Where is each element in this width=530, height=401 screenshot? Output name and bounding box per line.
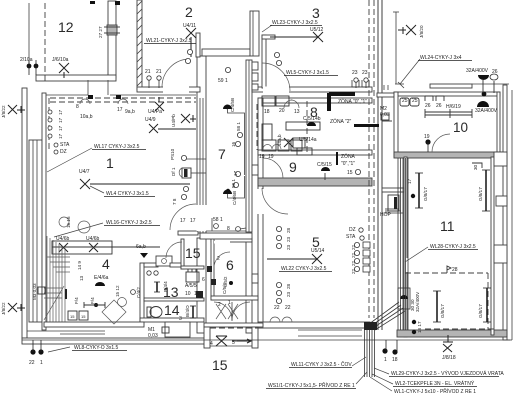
svg-text:21: 21	[145, 69, 151, 75]
svg-text:10: 10	[185, 291, 191, 297]
svg-text:G/8/17: G/8/17	[423, 187, 428, 201]
svg-text:E/4/6a: E/4/6a	[94, 275, 109, 281]
svg-text:7: 7	[218, 146, 226, 162]
svg-text:18 17: 18 17	[417, 321, 422, 333]
svg-text:6a,b: 6a,b	[136, 244, 146, 250]
svg-text:WL28-CYKY-J 3x2.5: WL28-CYKY-J 3x2.5	[430, 244, 476, 250]
svg-text:Df 1: Df 1	[171, 167, 176, 176]
svg-text:17: 17	[233, 170, 238, 176]
svg-text:10: 10	[194, 291, 200, 297]
svg-text:J/8/22: J/8/22	[1, 302, 6, 315]
svg-text:STA: STA	[346, 234, 356, 240]
svg-text:17: 17	[58, 133, 63, 139]
svg-text:C/4/5B: C/4/5B	[230, 98, 235, 112]
svg-text:U4/11: U4/11	[183, 23, 196, 29]
svg-text:C/5/15: C/5/15	[317, 162, 332, 168]
svg-text:28: 28	[286, 227, 291, 233]
svg-text:22: 22	[351, 268, 356, 274]
svg-text:J/6/10a: J/6/10a	[52, 57, 69, 63]
svg-text:22: 22	[285, 305, 291, 311]
svg-text:U5/12: U5/12	[310, 27, 324, 33]
svg-text:17: 17	[180, 218, 186, 224]
svg-text:15: 15	[185, 245, 201, 261]
svg-text:U4/Pa: U4/Pa	[148, 109, 162, 115]
svg-text:U4/9: U4/9	[145, 117, 156, 123]
svg-text:26: 26	[436, 103, 442, 109]
svg-text:16: 16	[231, 141, 236, 147]
svg-text:58 1: 58 1	[231, 179, 236, 188]
svg-text:22: 22	[29, 360, 35, 366]
svg-text:23: 23	[286, 236, 291, 242]
svg-text:5: 5	[232, 340, 235, 346]
svg-text:19: 19	[424, 134, 430, 140]
svg-text:15: 15	[81, 314, 86, 319]
svg-text:20: 20	[279, 108, 285, 114]
svg-text:"0","1": "0","1"	[341, 161, 355, 167]
svg-text:13: 13	[79, 275, 84, 281]
svg-text:25: 25	[412, 98, 418, 104]
svg-text:26: 26	[492, 69, 498, 75]
svg-text:G/8/17: G/8/17	[440, 304, 445, 318]
svg-text:27 27: 27 27	[98, 26, 103, 38]
svg-text:U4/6b: U4/6b	[86, 236, 100, 242]
svg-text:J/8/18: J/8/18	[442, 355, 456, 361]
svg-text:WL5-CYKY-J 3x1.5: WL5-CYKY-J 3x1.5	[286, 70, 329, 76]
svg-text:15: 15	[70, 314, 75, 319]
svg-text:U4/6b: U4/6b	[56, 236, 70, 242]
svg-text:M3 0,03: M3 0,03	[32, 283, 37, 300]
svg-text:12: 12	[58, 19, 74, 35]
svg-text:WL16-CYKY-J 3x2.5: WL16-CYKY-J 3x2.5	[106, 220, 152, 226]
svg-text:C/5/2: C/5/2	[222, 283, 227, 294]
svg-text:9: 9	[289, 159, 297, 175]
svg-text:1: 1	[106, 155, 114, 171]
svg-text:16 16: 16 16	[66, 216, 71, 228]
svg-text:2: 2	[217, 256, 220, 262]
svg-text:23: 23	[362, 70, 368, 76]
svg-text:C/4/2: C/4/2	[136, 287, 141, 298]
svg-text:58 1: 58 1	[213, 217, 223, 223]
svg-text:2: 2	[218, 302, 221, 308]
svg-text:WL29-CYKY-J 3x2.5 - VÝVOD VJEZ: WL29-CYKY-J 3x2.5 - VÝVOD VJEZDOVÁ VRATA	[391, 370, 504, 377]
svg-text:STA: STA	[60, 142, 70, 148]
svg-text:2/10a: 2/10a	[20, 57, 33, 63]
svg-text:A/5/5: A/5/5	[185, 283, 197, 289]
svg-text:H/6/19: H/6/19	[446, 104, 461, 110]
svg-text:14 9: 14 9	[77, 261, 82, 270]
svg-text:WL1-CYKY-J 5x10 - PŘÍVOD Z RE: WL1-CYKY-J 5x10 - PŘÍVOD Z RE 1	[394, 387, 476, 395]
svg-text:22: 22	[351, 252, 356, 258]
svg-text:17: 17	[190, 218, 196, 224]
svg-text:10a,b: 10a,b	[80, 114, 93, 120]
svg-text:3: 3	[179, 316, 182, 322]
svg-text:2: 2	[185, 4, 193, 20]
svg-text:17: 17	[58, 109, 63, 115]
svg-text:0,03: 0,03	[148, 333, 158, 339]
svg-text:1: 1	[40, 360, 43, 366]
svg-text:U4/Pb: U4/Pb	[171, 114, 176, 127]
svg-text:U4/7: U4/7	[79, 169, 90, 175]
svg-text:6: 6	[226, 257, 234, 273]
svg-text:32A/400V: 32A/400V	[466, 68, 489, 74]
svg-text:WL4 CYKY-J 3x1.5: WL4 CYKY-J 3x1.5	[106, 191, 149, 197]
svg-text:1: 1	[228, 300, 231, 306]
svg-text:6: 6	[202, 277, 205, 283]
svg-text:DZ: DZ	[349, 227, 356, 233]
svg-text:HOP: HOP	[380, 212, 392, 218]
svg-text:4: 4	[210, 341, 213, 347]
svg-text:17: 17	[407, 178, 412, 184]
svg-text:11: 11	[440, 218, 455, 234]
svg-text:15 12: 15 12	[115, 285, 120, 297]
svg-text:30: 30	[473, 164, 478, 170]
svg-text:F/4: F/4	[74, 297, 79, 304]
svg-text:G/8/17: G/8/17	[478, 187, 483, 201]
svg-text:23: 23	[286, 291, 291, 297]
svg-text:WL23-CYKY-J 3x2.5: WL23-CYKY-J 3x2.5	[272, 20, 318, 26]
svg-text:3: 3	[312, 5, 320, 21]
svg-text:32A/400V: 32A/400V	[415, 291, 420, 312]
svg-text:WL17 CYKY-J 3x2.5: WL17 CYKY-J 3x2.5	[94, 144, 140, 150]
svg-text:B/4/O: B/4/O	[185, 305, 190, 317]
svg-text:WS1/1-CYKY-J 5x1,5- PŘÍVOD Z R: WS1/1-CYKY-J 5x1,5- PŘÍVOD Z RE 1	[268, 381, 355, 389]
svg-text:WL11-CYKY J 3x2.5 - ČOV: WL11-CYKY J 3x2.5 - ČOV	[291, 361, 352, 368]
svg-text:30 30: 30 30	[410, 299, 415, 311]
svg-text:58 1: 58 1	[236, 122, 241, 131]
svg-text:J/8/20: J/8/20	[419, 25, 424, 38]
svg-text:32A/400V: 32A/400V	[475, 108, 498, 114]
svg-text:WL8-CYKY-O 3x1.5: WL8-CYKY-O 3x1.5	[74, 345, 118, 351]
svg-text:25: 25	[402, 98, 408, 104]
svg-text:15: 15	[347, 170, 353, 176]
svg-text:4: 4	[102, 256, 110, 272]
svg-text:U/5/14a: U/5/14a	[299, 137, 317, 143]
svg-text:23: 23	[352, 70, 358, 76]
svg-text:22: 22	[274, 305, 280, 311]
svg-text:8: 8	[227, 226, 230, 232]
svg-text:17: 17	[58, 125, 63, 131]
svg-text:18: 18	[392, 357, 398, 363]
svg-text:9a,b: 9a,b	[125, 109, 135, 115]
svg-text:23: 23	[286, 244, 291, 250]
svg-text:PS10: PS10	[170, 148, 175, 160]
svg-text:14: 14	[164, 302, 180, 318]
svg-text:17: 17	[117, 107, 123, 113]
svg-text:U5/14: U5/14	[311, 248, 325, 254]
svg-text:18: 18	[264, 109, 270, 115]
svg-text:C/4/6B: C/4/6B	[232, 191, 237, 205]
svg-text:ZÓNA "2": ZÓNA "2"	[330, 118, 352, 125]
svg-text:WL24-CYKY-J 3x4: WL24-CYKY-J 3x4	[420, 55, 462, 61]
svg-text:26: 26	[425, 103, 431, 109]
svg-text:22: 22	[351, 260, 356, 266]
svg-text:ZÓNA "0","1": ZÓNA "0","1"	[338, 98, 367, 105]
svg-text:7 8: 7 8	[172, 198, 177, 205]
svg-text:19: 19	[259, 154, 265, 160]
svg-text:WL21-CYKY-J 3x2.5: WL21-CYKY-J 3x2.5	[146, 38, 192, 44]
svg-text:17: 17	[58, 117, 63, 123]
svg-text:J/8/22: J/8/22	[1, 105, 6, 118]
svg-text:0,03: 0,03	[380, 112, 390, 118]
svg-text:WL2-TCEKPFLE 3N - EL. VRÁTNÝ: WL2-TCEKPFLE 3N - EL. VRÁTNÝ	[395, 380, 475, 387]
svg-text:22: 22	[351, 244, 356, 250]
svg-text:10: 10	[453, 119, 468, 135]
svg-text:59 1: 59 1	[218, 78, 228, 84]
svg-text:28: 28	[452, 267, 458, 273]
svg-text:15: 15	[212, 357, 228, 373]
svg-text:13: 13	[294, 109, 300, 115]
svg-text:DZ: DZ	[60, 149, 67, 155]
svg-text:F/4: F/4	[90, 297, 95, 304]
svg-text:G/8/17: G/8/17	[478, 304, 483, 318]
svg-text:21: 21	[156, 69, 162, 75]
svg-text:1: 1	[384, 357, 387, 363]
svg-text:B/4/4: B/4/4	[163, 281, 168, 292]
svg-text:C/5/14b: C/5/14b	[303, 116, 321, 122]
svg-text:28: 28	[286, 283, 291, 289]
svg-text:8: 8	[76, 104, 79, 110]
svg-text:WL22 CYKY-J 3x2.5: WL22 CYKY-J 3x2.5	[281, 266, 327, 272]
svg-text:ZÓNA: ZÓNA	[341, 153, 356, 160]
svg-text:19: 19	[268, 154, 274, 160]
svg-text:14a,b: 14a,b	[277, 134, 282, 146]
